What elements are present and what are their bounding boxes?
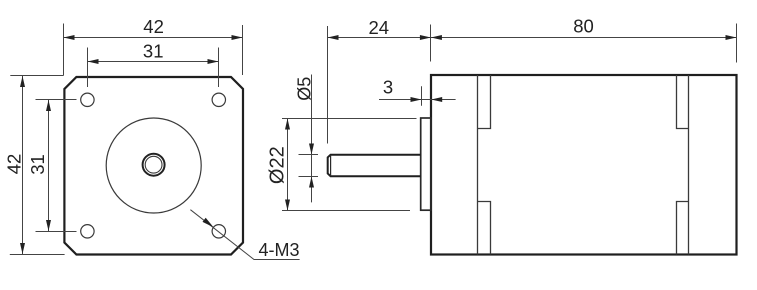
dimension 42 left: dimension line [22,76,24,254]
front bottom corner-post notch [478,202,491,255]
leader line to bottom-right mounting hole [190,210,299,260]
dimension 42 left: arrowheads [20,76,25,254]
svg-text:24: 24 [369,17,390,38]
dimension 42 top: arrowheads [64,35,243,40]
rear top corner-post notch [677,75,689,129]
motor body outline (side view) [431,75,737,255]
dimension 24: arrowheads [328,35,431,40]
dimension O5: dimension line [311,75,313,203]
svg-text:31: 31 [27,154,48,175]
faceplate outline (front view, chamfered square) [64,77,243,255]
leader arrowhead [203,218,214,228]
svg-text:Ø5: Ø5 [295,77,315,101]
dimension O22: arrowheads [285,119,290,211]
dimension 42 top: dimension line [64,37,243,39]
dimension 24: extension lines [328,25,431,144]
dimension O22: extension lines [282,119,417,211]
dimension O5: extension ticks [299,155,319,177]
dimension 3: dimension line [379,99,456,101]
mounting hole top-left [81,93,94,106]
dimension 24: dimension line [328,37,431,39]
dimension 31 left: extension lines [36,100,77,232]
svg-text:4-M3: 4-M3 [258,240,299,260]
dimension 80: arrowheads [431,35,737,40]
mounting hole bottom-right [212,225,225,238]
mounting hole bottom-left [81,225,94,238]
dimension 42 top: extension lines [64,24,243,76]
dimension O22: dimension line [287,119,289,211]
dimension 80: dimension line [431,37,737,39]
shaft circle outer (front view) [143,154,165,176]
svg-text:Ø22: Ø22 [267,146,289,184]
svg-text:3: 3 [383,77,393,98]
dimension 31 left: arrowheads [46,100,51,231]
dimension 31 top: arrowheads [88,59,219,64]
svg-text:80: 80 [573,15,594,36]
pilot boss circle (front view) [106,118,201,213]
dimension 31 left: dimension line [48,100,50,231]
front top corner-post notch [478,75,491,129]
dimension 31 top: dimension line [88,61,219,63]
dimension 42 left: extension lines [10,76,65,255]
mounting hole top-right [212,93,225,106]
shaft circle inner chamfer (front view) [145,156,162,173]
shaft (side view) [328,155,421,177]
dimension 3: arrowheads [411,97,443,102]
rear end-cap parting line [688,75,690,255]
svg-text:42: 42 [4,154,25,175]
front end-cap parting line [477,75,479,255]
svg-text:42: 42 [143,16,164,37]
shaft end chamfer line [330,155,332,176]
pilot boss (side view) [421,118,431,210]
dimension O5: arrowheads [309,144,314,188]
dimension 3: extension line at boss face [421,86,423,105]
rear bottom corner-post notch [677,202,689,255]
dimension 80: extension line right [736,24,738,63]
dimension 31 top: extension lines [88,48,219,88]
svg-text:31: 31 [143,40,164,61]
